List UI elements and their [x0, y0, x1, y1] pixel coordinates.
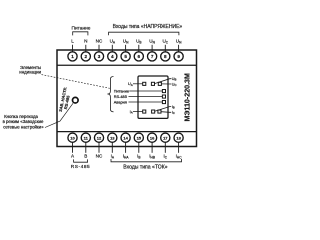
terminal 13 [108, 133, 117, 153]
voltage inputs bracket [109, 32, 179, 35]
terminal 8 [161, 45, 170, 61]
svg-text:Входы типа «ТОК»: Входы типа «ТОК» [123, 165, 167, 171]
svg-text:10: 10 [70, 136, 75, 141]
svg-text:14: 14 [123, 136, 128, 141]
svg-text:NC: NC [96, 39, 103, 44]
svg-text:UA: UA [110, 39, 116, 45]
LED alarm square [162, 101, 165, 104]
power bracket [73, 32, 88, 36]
svg-text:в режим «Заводские: в режим «Заводские [3, 119, 44, 124]
svg-text:UA: UA [128, 81, 133, 87]
terminal 16 [148, 133, 157, 153]
top terminal strip separator [57, 64, 197, 66]
rs485 bracket [74, 159, 88, 162]
terminal 4 [108, 45, 117, 61]
svg-text:IНС: IНС [176, 154, 183, 160]
svg-text:15: 15 [137, 136, 142, 141]
svg-text:Авария: Авария [114, 100, 127, 105]
wire LED IB diagonal [155, 107, 172, 112]
svg-text:IВ: IВ [137, 154, 140, 160]
svg-text:IС: IС [164, 154, 168, 160]
terminal 5 [121, 45, 130, 61]
svg-text:IC: IC [172, 111, 175, 116]
svg-text:UN: UN [176, 39, 182, 45]
terminal 18 [174, 133, 183, 153]
wire LED IC diagonal [161, 111, 171, 114]
svg-text:N: N [84, 39, 87, 44]
svg-text:IНВ: IНВ [149, 154, 155, 160]
LED power square [162, 90, 165, 93]
terminal 6 [134, 45, 143, 61]
svg-text:17: 17 [163, 136, 168, 141]
svg-text:IНА: IНА [123, 154, 130, 160]
device body outline [57, 50, 197, 147]
svg-text:L: L [71, 39, 74, 44]
svg-text:2: 2 [85, 54, 88, 59]
svg-text:Входы типа «НАПРЯЖЕНИЕ»: Входы типа «НАПРЯЖЕНИЕ» [113, 24, 183, 30]
LED IC square [158, 110, 161, 113]
svg-text:3: 3 [98, 54, 101, 59]
LED rs485 square [162, 95, 165, 98]
wire UA to LED [133, 83, 143, 85]
svg-text:1: 1 [71, 54, 74, 59]
terminal 3 [94, 45, 103, 61]
indicator panel box [138, 76, 168, 118]
LED IB square [152, 110, 155, 113]
svg-text:МЭ110-220.3М: МЭ110-220.3М [183, 73, 191, 122]
bottom terminal strip separator [57, 131, 197, 133]
svg-text:RS-485: RS-485 [71, 164, 91, 170]
svg-text:UN: UN [123, 39, 129, 45]
wire IA to LED [133, 111, 143, 113]
svg-text:Питание: Питание [114, 89, 129, 94]
svg-text:индикации: индикации [19, 70, 41, 75]
terminal 15 [134, 133, 143, 153]
factory settings button [73, 97, 79, 103]
terminal 12 [94, 133, 103, 153]
terminal 2 [81, 45, 90, 61]
svg-text:UB: UB [136, 39, 141, 45]
svg-text:5: 5 [124, 54, 127, 59]
LED UC square [158, 82, 161, 85]
svg-text:IB: IB [172, 105, 175, 110]
wire LED UB diagonal [155, 79, 172, 84]
svg-text:сетевые настройки»: сетевые настройки» [3, 125, 44, 130]
brace for indicator labels [107, 77, 113, 112]
terminal 1 [68, 45, 77, 61]
svg-text:7: 7 [151, 54, 154, 59]
svg-text:UC: UC [162, 39, 168, 45]
svg-text:16: 16 [150, 136, 155, 141]
terminal 11 [81, 133, 90, 153]
wire rs485 to LED [129, 96, 163, 98]
svg-text:9: 9 [177, 54, 180, 59]
svg-text:6: 6 [138, 54, 141, 59]
terminal 10 [68, 133, 77, 153]
wire LED UC diagonal [161, 83, 171, 85]
LED UA square [143, 82, 146, 85]
svg-text:18: 18 [176, 136, 181, 141]
svg-text:8: 8 [164, 54, 167, 59]
svg-text:Питание: Питание [72, 26, 91, 32]
svg-text:A: A [71, 154, 75, 159]
LED IA square [143, 110, 146, 113]
svg-text:4: 4 [111, 54, 114, 59]
button caption rotated [58, 87, 73, 114]
wire power to LED [129, 90, 162, 92]
svg-text:UB: UB [172, 77, 177, 82]
svg-text:RS-485: RS-485 [114, 94, 127, 99]
svg-text:IA: IA [130, 109, 133, 115]
terminal 14 [121, 133, 130, 153]
leader line to button [45, 103, 73, 127]
terminal 17 [161, 133, 170, 153]
svg-text:UN: UN [149, 39, 155, 45]
svg-text:13: 13 [110, 136, 115, 141]
svg-text:NC: NC [96, 154, 103, 159]
svg-text:12: 12 [97, 136, 102, 141]
svg-text:B: B [84, 154, 87, 159]
LED UB square [151, 82, 154, 85]
current inputs bracket [111, 159, 182, 162]
wire alarm to LED [129, 101, 163, 103]
svg-text:UC: UC [172, 82, 177, 87]
svg-text:IА: IА [111, 154, 115, 160]
terminal 9 [174, 45, 183, 61]
leader line to brace (dashed) [42, 75, 110, 89]
terminal 7 [148, 45, 157, 61]
